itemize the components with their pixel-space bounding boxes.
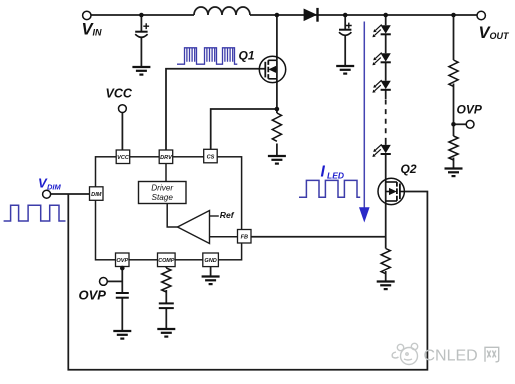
ground Cin [132,67,150,75]
svg-text:FB: FB [241,235,248,241]
wire GND pin down [210,267,212,276]
transistor Q2 [378,178,404,204]
pin CS [204,149,218,163]
driver stage block [139,182,187,204]
svg-text:OVP: OVP [79,288,107,303]
transistor Q1 [259,56,285,82]
svg-text:DIM: DIM [91,192,102,198]
pin FB [238,230,252,244]
wire Q1 sense resistor leads [276,144,278,156]
wire CS to Q1 source [211,109,277,149]
svg-text:Q1: Q1 [239,49,255,63]
svg-text:DIM: DIM [47,183,62,192]
wire LED string [385,15,387,99]
wire VDIM to DIM pin [51,193,90,195]
junction node Cout/top rail [343,13,348,18]
svg-text:Stage: Stage [151,193,173,202]
capacitor C-COMP [159,303,174,308]
LED D2 [372,25,390,38]
svg-text:OVP: OVP [457,103,483,117]
ground C-OVP [113,331,131,339]
pin VCC [116,150,130,164]
terminal VCC [119,105,127,113]
watermark glyph wang [485,347,499,362]
terminal VDIM [43,190,51,198]
svg-text:Q2: Q2 [401,162,417,176]
svg-text:DRV: DRV [160,155,173,161]
watermark logo [392,343,418,364]
wire FB to Q2 source node [251,236,386,238]
terminal VOUT [477,11,485,19]
wire Cin drop [140,15,142,67]
svg-text:Ref: Ref [220,210,235,220]
junction node OVP divider mid [451,122,456,127]
wire OVP terminal stub [107,280,122,282]
wire Q2 source [385,201,387,281]
pin GND [203,253,219,267]
ILED current arrowhead [359,207,370,222]
wire Q1 drain [276,15,278,60]
wire Q1 source [276,79,278,113]
op-amp comparator [178,211,210,244]
wire comparator output to driver stage [167,204,177,228]
svg-text:I: I [321,164,326,181]
junction node Cin/top rail [139,13,144,18]
terminal OVP left [100,278,108,286]
inductor L1 [194,7,250,15]
svg-text:CS: CS [207,154,215,160]
resistor Rovp2 [449,136,458,160]
ILED current arrow line [363,22,365,210]
wire Q2 body column [385,182,387,201]
LED D3 [372,53,390,66]
svg-text:CNLED: CNLED [424,348,478,365]
junction node OVP pin [120,266,125,271]
ground Rovp2 [445,169,463,177]
pin COMP [158,253,176,267]
wire Ref stub [210,215,219,217]
junction node Q1 source/CS [275,107,280,112]
diode D1 [304,8,318,22]
ground Cout [336,66,354,74]
wire gate Q1 from DRV [166,69,265,150]
wire dim bottom rail to Q2 gate [68,192,427,370]
wire comparator to FB pin [210,236,238,238]
wire DRV to driver stage [165,164,167,182]
svg-text:IN: IN [93,28,103,38]
capacitor Cout (electrolytic) [339,23,352,36]
svg-text:VCC: VCC [106,87,133,101]
junction node Q1 drain/top rail [275,13,280,18]
svg-text:COMP: COMP [158,258,175,264]
svg-text:OVP: OVP [116,258,128,264]
wire LED dashed section [385,100,387,139]
capacitor Cin (electrolytic) [135,23,149,37]
wire Q1 body column [276,60,278,79]
LED D5 [372,144,390,157]
svg-text:Driver: Driver [151,184,173,193]
svg-text:GND: GND [204,258,216,264]
wire OVP pin down [121,267,123,331]
ground Rs2 [377,282,395,290]
resistor Rs2 (Q2 source sense) [381,249,390,274]
junction node LED string/top rail [383,13,388,18]
wire OVP stub [454,123,467,125]
wire LED4 to Q2 drain [385,138,387,182]
ground Rcs [268,156,286,164]
pin DIM [90,187,104,201]
wire VCC drop [121,113,123,150]
pin DRV [159,150,173,164]
wire OVP divider drop [453,15,455,168]
IC U1 outline [96,157,242,260]
resistor R-COMP [162,268,171,292]
terminal OVP right [466,120,474,128]
pin OVP [116,253,130,267]
wire COMP pin down [165,267,167,329]
resistor Rovp1 [449,60,458,86]
resistor Rcs (Q1 source sense) [272,113,281,141]
svg-text:OUT: OUT [490,31,511,41]
wire top rail [91,14,477,16]
LED D4 [372,80,390,93]
svg-text:VCC: VCC [117,155,130,161]
waveform VDIM PWM [4,205,66,221]
ground GND pin [202,277,220,285]
waveform Q1 gate PWM [177,48,237,64]
wire Cout drop [344,15,346,66]
capacitor C-OVP [116,293,129,298]
ground C-COMP [157,329,175,337]
waveform ILED [299,180,360,197]
terminal VIN [83,11,91,19]
svg-text:LED: LED [327,171,344,181]
junction node OVP divider/top rail [451,13,456,18]
